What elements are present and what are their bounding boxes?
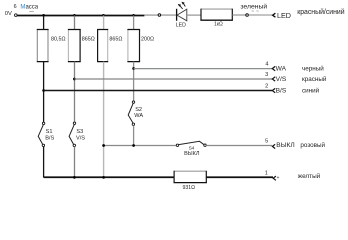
wire R4 top stub [133, 16, 135, 30]
wire 1k to terminal [232, 14, 246, 16]
svg-text:1кΩ: 1кΩ [214, 22, 223, 28]
LED emission arrow 2 [183, 3, 185, 6]
switch S3 bottom contact [73, 144, 75, 146]
svg-text:V/S: V/S [276, 76, 287, 83]
junction top R3 [102, 14, 105, 17]
terminal 1 plus mark [277, 176, 279, 178]
junction S2 net5 [132, 144, 135, 147]
junction top R4 [132, 14, 135, 17]
svg-text:931Ω: 931Ω [183, 185, 196, 191]
wire R2 lower column [74, 62, 76, 123]
switch S3 blade [69, 125, 74, 145]
terminal arrow 4 [272, 66, 275, 70]
svg-text:6: 6 [14, 4, 17, 10]
resistor R3 [97, 30, 108, 62]
switch S4 left contact [176, 144, 178, 146]
resistor R2 [68, 30, 81, 62]
wire R2 top stub [74, 16, 76, 30]
svg-text:2: 2 [265, 84, 268, 90]
svg-text:80,5Ω: 80,5Ω [51, 37, 66, 43]
svg-text:красный: красный [302, 75, 327, 83]
connector circle on LED feed [158, 14, 161, 17]
svg-text:200Ω: 200Ω [141, 37, 154, 43]
svg-text:V/S: V/S [76, 135, 85, 141]
wire R4 lower column [133, 62, 135, 101]
wire bottom bus left [44, 176, 175, 178]
wire top bus to LED gray [144, 14, 176, 16]
switch S4 right contact [204, 144, 206, 146]
wire line 3 VS [74, 78, 272, 80]
terminal arrow 1 [273, 176, 276, 180]
LED off-page arrow [273, 13, 276, 17]
svg-text:5: 5 [265, 138, 268, 144]
switch S2 bottom contact [132, 123, 134, 125]
resistor R4 [127, 30, 140, 62]
switch S1 blade [38, 125, 43, 145]
wire S1 bottom [43, 147, 45, 178]
terminal circle green wire [246, 14, 249, 17]
junction R1 line2 [42, 89, 45, 92]
wire R3 lower column gray [103, 62, 105, 178]
terminal arrow 5 [272, 144, 275, 148]
ticks under зеленый [252, 10, 259, 12]
resistor 1k ohm [200, 9, 233, 21]
svg-text:WA: WA [276, 66, 287, 73]
svg-text:B/S: B/S [45, 135, 54, 141]
svg-text:S1: S1 [46, 129, 53, 135]
resistor R1 [37, 30, 49, 62]
junction top R1 [42, 14, 45, 17]
junction top R2 [73, 14, 76, 17]
svg-text:зеленый: зеленый [240, 2, 267, 10]
svg-text:синий: синий [302, 86, 320, 94]
svg-text:S3: S3 [76, 129, 83, 135]
terminal arrow 3 [272, 77, 275, 81]
junction R4 line4 [132, 67, 135, 70]
junction R3 net5 [102, 144, 105, 147]
svg-text:B/S: B/S [276, 87, 287, 94]
wire net5 left [104, 145, 177, 147]
svg-text:865Ω: 865Ω [109, 37, 122, 43]
svg-text:LED: LED [176, 22, 186, 28]
switch S3 top contact [73, 122, 75, 124]
terminal arrow 2 [272, 88, 275, 92]
wire R3 top stub gray [103, 16, 105, 30]
junction S3 bottom [73, 176, 76, 179]
resistor 931 ohm [174, 171, 207, 183]
svg-text:желтый: желтый [298, 172, 321, 180]
svg-text:ВЫКЛ: ВЫКЛ [276, 142, 294, 149]
svg-text:черный: черный [302, 65, 324, 73]
svg-text:розовый: розовый [300, 141, 325, 149]
wire terminal to LED arrow [249, 14, 274, 16]
junction R2 line3 [73, 78, 76, 81]
switch S2 blade [128, 103, 133, 123]
wire S3 bottom [74, 147, 76, 178]
svg-text:4: 4 [265, 62, 268, 68]
LED cathode bar [176, 9, 178, 21]
svg-text:ВЫКЛ: ВЫКЛ [184, 151, 200, 157]
wire line 2 BS [44, 90, 272, 92]
LED wire through symbol [187, 14, 201, 16]
svg-text:WA: WA [134, 113, 143, 119]
wire bottom bus right [206, 176, 273, 178]
wire S2 bottom [133, 126, 135, 146]
LED emission arrow 1 [180, 6, 183, 9]
svg-text:красный/синий: красный/синий [297, 8, 345, 16]
svg-text:865Ω: 865Ω [82, 37, 95, 43]
svg-text:0V: 0V [5, 11, 12, 17]
wire R1 lower column [43, 62, 45, 123]
terminal 0V circle [15, 14, 18, 17]
wire top ground bus [17, 15, 144, 17]
LED triangle [177, 9, 187, 21]
wire R1 top stub [43, 16, 45, 30]
svg-text:1: 1 [265, 170, 268, 176]
switch S1 bottom contact [42, 144, 44, 146]
junction R3 bottom [102, 176, 105, 179]
switch S2 top contact [132, 101, 134, 103]
svg-text:3: 3 [265, 72, 268, 78]
tick under Масса [29, 10, 34, 12]
svg-text:LED: LED [277, 11, 291, 20]
switch S1 top contact [42, 122, 44, 124]
switch S4 blade [179, 141, 204, 144]
svg-text:Масса: Масса [20, 5, 38, 11]
svg-text:S4: S4 [189, 145, 195, 150]
wire line 4 WA [134, 68, 272, 70]
wire net5 right [206, 145, 272, 147]
